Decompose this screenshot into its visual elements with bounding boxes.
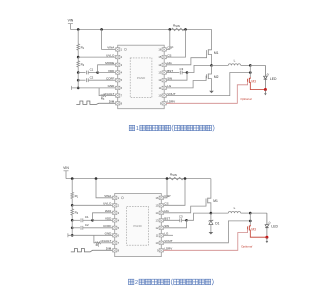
transistor M3 (optional shunt dimming FET, red) xyxy=(248,78,250,83)
capacitor C3 (bootstrap) xyxy=(179,71,181,75)
svg-text:M1: M1 xyxy=(213,199,218,203)
node RSNS right junction xyxy=(184,28,187,31)
U1 PGND thermal pad (dashed) xyxy=(130,58,152,98)
transistor M2 (sync rectifier NFET) xyxy=(208,65,211,74)
U2 PGND thermal pad (dashed) xyxy=(127,206,149,245)
node RSNS left junction xyxy=(169,28,172,31)
node VOUT junction xyxy=(249,71,252,74)
node output junction after L (fig2) xyxy=(249,212,252,215)
node junction rail/VINA drop (fig2) xyxy=(95,177,98,180)
U1 pin 16 (CSP) xyxy=(162,48,166,51)
node VDD junction on divider column (fig2) xyxy=(71,219,74,222)
svg-text:RSNS: RSNS xyxy=(170,173,177,178)
svg-text:M2: M2 xyxy=(214,75,219,79)
svg-text:VDD: VDD xyxy=(105,217,112,221)
svg-text:LED: LED xyxy=(270,77,277,81)
U1 pin 2 (UVLO) xyxy=(116,55,120,58)
wire column to GND row (fig2) xyxy=(71,228,73,236)
U2 pin 11 (LG) xyxy=(159,234,163,237)
resistor R2 (fig2) xyxy=(71,209,74,215)
resistor R1 xyxy=(77,29,79,44)
capacitor C2 (fig2) xyxy=(71,220,73,228)
svg-text:VINA: VINA xyxy=(107,46,114,50)
LED string D-LED (fig2) xyxy=(266,213,268,225)
svg-text:UVLO: UVLO xyxy=(103,202,112,206)
U2 pin 16 (CSP) xyxy=(159,196,163,199)
node COFF junction on column xyxy=(77,79,80,82)
node C3/SW junction (fig2) xyxy=(185,219,188,222)
svg-text:Optional: Optional xyxy=(241,244,253,248)
svg-text:C3: C3 xyxy=(180,67,184,71)
svg-text:C2: C2 xyxy=(85,223,89,227)
wire VOUT from pin 10 (fig2) xyxy=(164,221,251,243)
wire SW up to switch node xyxy=(187,65,212,72)
svg-text:VIN: VIN xyxy=(68,18,74,22)
node C3/SW junction xyxy=(186,71,189,74)
resistor R1 (fig2) xyxy=(71,179,73,193)
PWM dimming waveform + wire DIM to pin 8 xyxy=(76,101,115,104)
U1 pin 11 (LG) xyxy=(162,86,166,89)
U2 pin 5 (COFF) xyxy=(113,226,117,229)
node GND junction (fig2) xyxy=(71,234,74,237)
svg-text:UVLO: UVLO xyxy=(106,53,115,57)
U1 pin 10 (VOUT) xyxy=(162,94,166,97)
U2 pin 7 (nFAULT) xyxy=(113,241,117,244)
U1 pin 1 (VINA) xyxy=(116,48,120,51)
U1 pin 3 (MODE) xyxy=(116,63,120,66)
wire CSP from pin 16 xyxy=(166,29,169,49)
ground terminal bar (fig2 left) xyxy=(67,233,69,237)
node C1/VDD junction (fig2) xyxy=(91,219,94,222)
svg-text:Optional: Optional xyxy=(240,97,252,101)
svg-text:nFAULT: nFAULT xyxy=(104,92,115,96)
svg-text:VIN: VIN xyxy=(63,166,69,170)
svg-text:IADJ: IADJ xyxy=(105,209,112,213)
node SW switch node (fig2) xyxy=(210,212,213,215)
U2 pin 10 (VOUT) xyxy=(159,241,163,244)
resistor R2 xyxy=(77,61,80,67)
svg-text:GND: GND xyxy=(105,232,113,236)
U2 pin 4 (VDD) xyxy=(113,219,117,222)
ground (D1 anode, fig2) xyxy=(209,232,214,235)
U2 pin 15 (CS) xyxy=(159,204,163,207)
node UVLO junction xyxy=(77,56,80,59)
wire nFAULT tie from GND row (fig2) xyxy=(94,235,96,243)
svg-text:RSNS: RSNS xyxy=(173,23,180,28)
wire IADJ stub to pin 3 (fig2) xyxy=(93,213,113,221)
svg-text:R1: R1 xyxy=(75,194,79,199)
resistor R3 (fig2) xyxy=(96,242,101,244)
PWM dimming waveform + wire DIM to pin 8 (fig2) xyxy=(71,249,113,252)
svg-text:C3: C3 xyxy=(179,214,183,218)
wire GND to pin 6 (fig2) xyxy=(68,234,113,236)
node junction rail/VINA drop xyxy=(100,28,103,31)
svg-text:L: L xyxy=(234,58,236,62)
svg-text:M3: M3 xyxy=(251,80,256,84)
return arrow below LED cathode (fig2) xyxy=(266,237,268,241)
U2 pin 3 (IADJ) xyxy=(113,211,117,214)
svg-text:2: 2 xyxy=(135,280,138,286)
U2 pin 9 (LDRV) xyxy=(159,249,163,252)
resistor RSNS (fig1 sense resistor) xyxy=(172,28,185,30)
svg-text:PGND: PGND xyxy=(137,76,145,80)
U2 pin 8 (DIM) xyxy=(113,249,117,252)
wire LG stub from pin 11 (fig2) xyxy=(164,234,174,236)
transistor M3 (optional shunt dimming FET, red, fig2) xyxy=(248,226,250,231)
U1 pin 9 (LDRV) xyxy=(162,102,166,105)
wire VDD to pin 4 xyxy=(98,72,116,74)
node GND junction xyxy=(77,87,80,90)
wire HG from pin 14 to M1 gate xyxy=(166,54,206,65)
svg-text:R1: R1 xyxy=(81,46,85,51)
node LED cathode (red, fig2) xyxy=(265,236,268,239)
U1 pin 4 (VDD) xyxy=(116,71,120,74)
wire GND to pin 6 xyxy=(71,87,115,89)
U2 pin-1 indicator xyxy=(121,197,123,199)
caption figure 1 (blue) xyxy=(129,125,134,130)
node UVLO junction (fig2) xyxy=(71,204,74,207)
U1 pin 15 (CS) xyxy=(162,55,166,58)
wire SW from pin 12 (fig2) xyxy=(164,220,187,228)
svg-text:M1: M1 xyxy=(214,51,219,55)
svg-text:nFAULT: nFAULT xyxy=(101,239,112,243)
wire LDRV from pin 9 to M3 gate (red, fig2) xyxy=(164,230,248,251)
svg-text:COFF: COFF xyxy=(106,77,114,81)
U2 pin 6 (GND) xyxy=(113,234,117,237)
caption figure 2 (blue) xyxy=(128,279,133,284)
svg-text:R2: R2 xyxy=(81,62,85,67)
svg-text:R2: R2 xyxy=(75,211,79,216)
diode D1 (async rectifier) xyxy=(210,213,212,221)
wire VDD to pin 4 (fig2) xyxy=(93,219,113,221)
node VOUT junction (fig2) xyxy=(249,220,252,223)
U2 pin 2 (UVLO) xyxy=(113,204,117,207)
wire CSN from pin 15 xyxy=(166,29,185,57)
U1 pin 6 (GND) xyxy=(116,86,120,89)
svg-text:GND: GND xyxy=(108,84,116,88)
svg-text:1: 1 xyxy=(136,126,139,132)
wire BST from pin 13 (fig2) xyxy=(164,219,180,221)
capacitor C1 xyxy=(78,72,85,74)
node LED cathode (red) xyxy=(264,88,267,91)
node SW switch node xyxy=(210,64,213,67)
svg-text:R3: R3 xyxy=(96,243,100,248)
U1 pin 13 (BST) xyxy=(162,71,166,74)
wire VINA drop to pin 1 (fig2) xyxy=(96,179,113,198)
capacitor C2 xyxy=(77,73,79,81)
node VDD junction on divider column xyxy=(77,71,80,74)
op-amp U1 (16-pin LED driver controller IC body) xyxy=(118,45,165,108)
U1 pin 14 (HG) xyxy=(162,63,166,66)
transistor M1 (high-side NFET) xyxy=(208,29,211,49)
U2 pin 13 (BST) xyxy=(159,219,163,222)
svg-text:L: L xyxy=(234,206,236,210)
svg-text:LED: LED xyxy=(271,225,278,229)
U1 pin-1 indicator xyxy=(124,48,126,50)
wire UVLO to pin 2 xyxy=(78,56,115,58)
wire HG from pin 14 to M1 gate (fig2) xyxy=(164,202,207,212)
svg-text:PGND: PGND xyxy=(133,224,141,228)
U1 pin 8 (DIM) xyxy=(116,102,120,105)
node RSNS right junction (fig2) xyxy=(184,177,187,180)
wire VIN rail (fig2) xyxy=(66,178,211,180)
wire CSN from pin 15 (fig2) xyxy=(164,179,186,206)
ground terminal bar (fig1 left) xyxy=(70,86,72,90)
svg-text:DIM: DIM xyxy=(106,247,112,251)
transistor M1 (high-side NFET, fig2) xyxy=(208,179,211,199)
wire VOUT from pin 10 xyxy=(166,73,250,96)
wire SW up to switch node (fig2) xyxy=(187,213,211,220)
wire output to LED anode (fig2) xyxy=(250,212,267,214)
wire LG from pin 11 to M2 gate xyxy=(166,76,206,88)
inductor L (fig1) xyxy=(212,64,229,66)
U2 pin 1 (VINA) xyxy=(113,196,117,199)
svg-text:C2: C2 xyxy=(90,75,94,79)
wire UVLO to pin 2 (fig2) xyxy=(72,204,112,206)
node C1/VDD junction xyxy=(96,71,99,74)
capacitor C3 (bootstrap, fig2) xyxy=(179,218,181,222)
node RSNS left junction (fig2) xyxy=(166,177,169,180)
svg-text:C1: C1 xyxy=(85,215,89,219)
svg-text:DIM: DIM xyxy=(109,100,115,104)
wire output to LED anode xyxy=(250,64,265,66)
inductor L (fig2) xyxy=(211,212,228,214)
wire MODE stub to pin 3 xyxy=(98,65,116,73)
svg-text:VDD: VDD xyxy=(108,69,115,73)
wire BST from pin 13 xyxy=(166,72,179,74)
wire output node down to M3 drain xyxy=(249,65,251,72)
capacitor C1 (fig2) xyxy=(72,219,80,221)
node junction rail/R1 xyxy=(77,28,80,31)
node COFF junction on column (fig2) xyxy=(71,227,74,230)
wire SW from pin 12 xyxy=(166,73,187,81)
U2 pin 12 (SW) xyxy=(159,226,163,229)
node junction rail/R1 (fig2) xyxy=(71,177,74,180)
wire nFAULT to pin 7 (fig2) xyxy=(101,242,113,244)
LED string D-LED (fig1) xyxy=(264,65,266,76)
wire VIN rail (fig1) xyxy=(70,28,211,30)
return arrow below LED cathode (fig1) xyxy=(264,90,266,94)
resistor R3 xyxy=(101,95,106,97)
U2 pin 14 (HG) xyxy=(159,211,163,214)
wire nFAULT to pin 7 xyxy=(106,95,116,97)
svg-text:D1: D1 xyxy=(215,222,219,226)
U1 pin 7 (nFAULT) xyxy=(116,94,120,97)
ground (M2 source, fig1) xyxy=(209,91,214,94)
svg-text:M3: M3 xyxy=(251,227,256,231)
svg-text:VINA: VINA xyxy=(104,194,111,198)
svg-text:C1: C1 xyxy=(90,68,94,72)
op-amp U2 (16-pin LED driver controller IC body) xyxy=(115,194,162,257)
svg-text:R3: R3 xyxy=(101,97,105,102)
U1 pin 5 (COFF) xyxy=(116,79,120,82)
wire LDRV from pin 9 to M3 gate (red) xyxy=(166,82,247,103)
wire nFAULT tie from GND row xyxy=(99,88,101,96)
wire CSP from pin 16 (fig2) xyxy=(164,179,168,198)
resistor RSNS (fig2 sense resistor) xyxy=(169,177,184,179)
svg-text:MODE: MODE xyxy=(105,61,114,65)
wire column to GND row xyxy=(77,80,79,88)
wire output node down to M3 drain (fig2) xyxy=(249,213,251,221)
U1 pin 12 (SW) xyxy=(162,79,166,82)
node output junction after L xyxy=(249,64,252,67)
svg-text:COFF: COFF xyxy=(103,224,111,228)
wire VINA drop to pin 1 xyxy=(102,29,116,49)
